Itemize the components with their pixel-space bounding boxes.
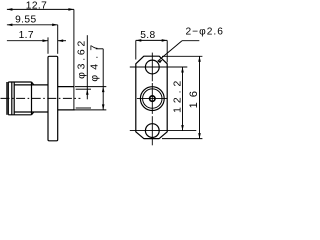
dimension 1.7 (flange thickness) [7, 40, 48, 42]
dimension 16 [199, 56, 201, 138]
extension lines for 16 [162, 55, 202, 57]
side view: flange plate [48, 56, 58, 141]
side view: insulator / pin stub [58, 87, 75, 110]
svg-text:16: 16 [188, 86, 200, 108]
svg-text:12.7: 12.7 [26, 1, 47, 12]
2-phi2.6 leader and text [182, 40, 199, 42]
phi4.7 dimension [75, 49, 106, 110]
side view: barrel between nut and flange [14, 85, 48, 112]
svg-text:12.2: 12.2 [172, 77, 183, 113]
front view: bottom mounting hole [145, 124, 159, 138]
extension line x=57.7 (9.55 & 1.7) [57, 25, 59, 54]
svg-text:9.55: 9.55 [15, 14, 36, 25]
dimension 12.7 [7, 8, 74, 10]
side view: centerline [1, 97, 81, 99]
front view: top mounting hole [145, 60, 159, 74]
svg-text:1.7: 1.7 [19, 30, 34, 41]
svg-text:2−φ2.6: 2−φ2.6 [186, 27, 224, 38]
svg-text:φ4.7: φ4.7 [89, 40, 100, 82]
svg-text:5.8: 5.8 [140, 30, 155, 41]
front view: flange plate outline (chamfered corners) [136, 56, 167, 138]
extension+object line: pin end face / 12.7 right extension [73, 9, 75, 110]
svg-text:φ3.62: φ3.62 [77, 38, 88, 79]
side view: connector nut body [7, 82, 34, 115]
dimension 12.2 [182, 67, 184, 131]
dimension 5.8 [136, 39, 167, 41]
dimension 9.55 [7, 24, 58, 26]
phi3.62 dimension [76, 35, 91, 108]
front view: center connector circles [140, 87, 164, 111]
